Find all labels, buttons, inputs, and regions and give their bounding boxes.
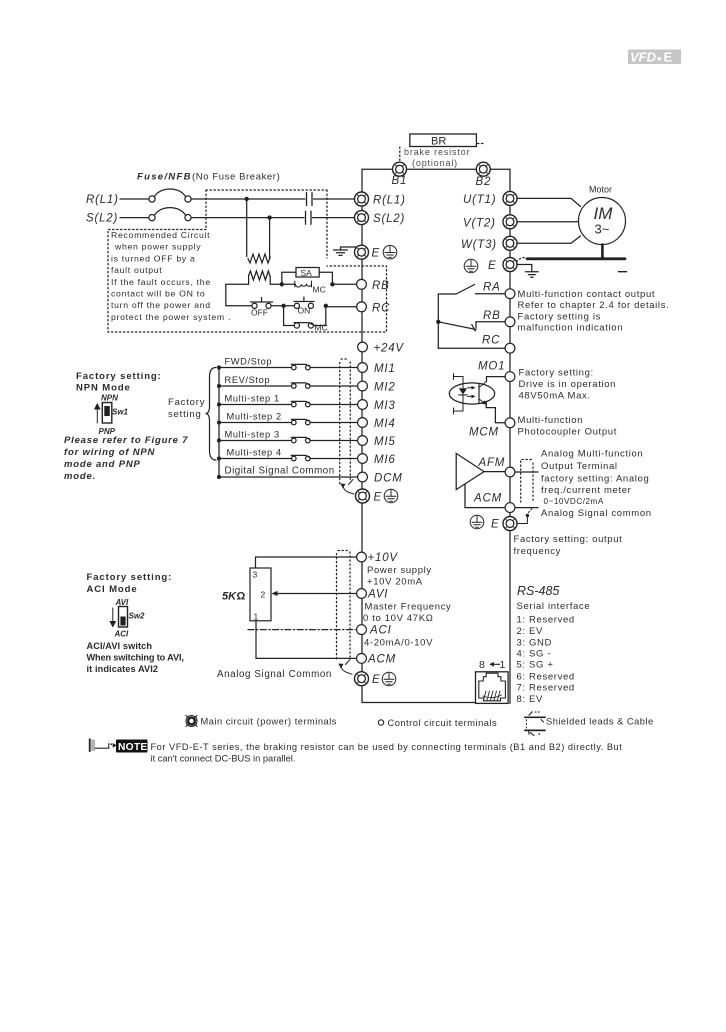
legend control circuit terminal icon xyxy=(378,720,383,725)
svg-text:When switching to AVI,: When switching to AVI, xyxy=(87,653,184,663)
dotted box recommended circuit xyxy=(108,230,387,333)
svg-text:setting: setting xyxy=(168,409,202,420)
terminal +24V xyxy=(358,342,368,352)
svg-text:AVI: AVI xyxy=(115,598,130,607)
svg-text:Drive is in operation: Drive is in operation xyxy=(519,379,617,390)
svg-text:6: Reserved: 6: Reserved xyxy=(517,672,575,683)
wire U to motor xyxy=(516,198,581,206)
svg-text:mode and PNP: mode and PNP xyxy=(64,459,141,470)
svg-text:turn off the power and: turn off the power and xyxy=(111,300,211,310)
svg-text:3~: 3~ xyxy=(595,222,610,237)
amplifier AFM xyxy=(456,453,484,489)
terminal E analog right xyxy=(503,517,517,531)
svg-text:Power supply: Power supply xyxy=(367,565,432,576)
svg-text:NOTE: NOTE xyxy=(118,742,147,753)
svg-text:MO1: MO1 xyxy=(478,361,505,373)
svg-text:R(L1): R(L1) xyxy=(86,194,119,206)
svg-text:freq./current meter: freq./current meter xyxy=(541,485,632,496)
terminal +10V xyxy=(357,552,367,562)
svg-text:E: E xyxy=(374,492,382,504)
shield dotted lines analog xyxy=(337,552,351,661)
ground symbol circled right-E xyxy=(464,259,478,273)
svg-text:Factory setting:: Factory setting: xyxy=(87,572,173,583)
svg-text:8: 8 xyxy=(479,659,485,671)
wire MI5 row xyxy=(219,440,357,442)
terminal RB right xyxy=(505,317,515,327)
svg-text:brake resistor: brake resistor xyxy=(404,147,470,157)
thick ground bus motor xyxy=(601,245,604,259)
svg-text:1: 1 xyxy=(254,612,259,622)
terminal RC xyxy=(357,302,367,312)
svg-text:4-20mA/0-10V: 4-20mA/0-10V xyxy=(364,638,433,649)
svg-text:Multi-function contact output: Multi-function contact output xyxy=(518,289,656,300)
switch Sw1 icon xyxy=(95,404,100,423)
wire pot pin1 to ACM xyxy=(256,621,357,659)
svg-text:S(L2): S(L2) xyxy=(86,213,118,225)
terminal ACI xyxy=(357,625,367,635)
svg-text:Output Terminal: Output Terminal xyxy=(541,461,618,472)
earth symbol at E left xyxy=(334,247,357,255)
svg-text:V(T2): V(T2) xyxy=(463,218,496,230)
text analog multi-function output xyxy=(541,449,652,520)
svg-text:Refer to chapter 2.4 for detai: Refer to chapter 2.4 for details. xyxy=(518,300,670,311)
wire SA branch xyxy=(282,272,333,284)
svg-text:Analog Signal Common: Analog Signal Common xyxy=(217,669,332,680)
svg-text:Motor: Motor xyxy=(589,185,612,195)
text power supply xyxy=(367,565,432,588)
junction dot SA left xyxy=(280,282,284,286)
svg-text:ON: ON xyxy=(298,306,311,316)
wire MI1 row xyxy=(219,367,357,369)
svg-text:48V50mA Max.: 48V50mA Max. xyxy=(519,391,591,402)
terminal R(L1) xyxy=(355,192,369,206)
svg-text:Recommended Circuit: Recommended Circuit xyxy=(111,230,210,240)
wire R2 right to SA branch xyxy=(270,276,295,284)
terminal MI1 xyxy=(358,363,368,373)
svg-text:Serial interface: Serial interface xyxy=(517,601,591,612)
svg-text:MC: MC xyxy=(315,323,328,333)
svg-text:Sw2: Sw2 xyxy=(129,612,146,621)
text please refer figure 7 xyxy=(64,435,188,482)
svg-text:(optional): (optional) xyxy=(412,158,458,168)
dotted box EMI filter xyxy=(206,190,327,258)
svg-text:Analog Signal common: Analog Signal common xyxy=(541,508,652,519)
potentiometer 5K xyxy=(250,568,271,621)
wire to RC xyxy=(326,306,357,308)
svg-text:5K: 5K xyxy=(222,591,237,603)
svg-text:MI5: MI5 xyxy=(374,436,396,448)
logo VFD-E xyxy=(628,50,681,65)
svg-text:Multi-step 4: Multi-step 4 xyxy=(227,448,282,458)
terminal ACM left xyxy=(357,654,367,664)
coil MC xyxy=(295,281,312,287)
svg-text:ACI Mode: ACI Mode xyxy=(87,584,138,595)
svg-text:MI1: MI1 xyxy=(374,363,396,375)
text serial interface list xyxy=(517,601,591,705)
capacitor C2 on S line xyxy=(306,211,312,224)
svg-text:REV/Stop: REV/Stop xyxy=(225,375,271,385)
svg-text:Factory: Factory xyxy=(168,397,205,408)
svg-text:S(L2): S(L2) xyxy=(373,213,405,225)
terminal MCM xyxy=(505,418,515,428)
svg-text:malfunction indication: malfunction indication xyxy=(518,323,624,334)
svg-text:NPN Mode: NPN Mode xyxy=(76,383,131,394)
note box xyxy=(116,740,148,753)
terminal B2 xyxy=(476,162,490,176)
svg-text:Multi-step 1: Multi-step 1 xyxy=(225,394,280,404)
terminal MI5 xyxy=(358,436,368,446)
relay common rail xyxy=(437,294,439,348)
svg-text:NPN: NPN xyxy=(101,394,118,403)
text multi-function photocoupler xyxy=(518,415,618,438)
wire MI6 row xyxy=(219,458,357,460)
text multi-function contact output xyxy=(518,289,670,334)
svg-text:1: 1 xyxy=(500,659,506,671)
wire RA xyxy=(476,293,506,295)
svg-text:3: 3 xyxy=(253,570,258,580)
terminal AVI xyxy=(357,589,367,599)
wire R input xyxy=(120,198,149,200)
note pencil icon xyxy=(90,739,117,751)
svg-text:AVI: AVI xyxy=(367,589,388,601)
terminal B1 xyxy=(393,162,407,176)
svg-text:Fuse/NFB: Fuse/NFB xyxy=(137,172,192,183)
svg-text:1: Reserved: 1: Reserved xyxy=(517,615,575,626)
text master frequency xyxy=(363,602,451,625)
svg-text:Photocoupler Output: Photocoupler Output xyxy=(518,427,618,438)
dash-dot wire ACI xyxy=(248,629,355,631)
junction dot S xyxy=(267,215,271,219)
svg-text:RS-485: RS-485 xyxy=(517,584,559,598)
wire MO1 to opto xyxy=(487,377,506,382)
svg-text:MC: MC xyxy=(313,285,326,295)
svg-text:E: E xyxy=(372,674,380,686)
svg-text:2: 2 xyxy=(261,590,266,600)
svg-text:Analog Multi-function: Analog Multi-function xyxy=(541,449,643,460)
wire S input xyxy=(120,217,149,219)
svg-text:5: SG +: 5: SG + xyxy=(517,660,554,671)
terminal RA xyxy=(505,289,515,299)
ground symbol circled analog right xyxy=(470,515,484,529)
wire OFF to ON xyxy=(272,305,295,307)
wire amp to ACM xyxy=(465,484,538,508)
shield arrow to E digital xyxy=(349,480,354,485)
junction dot R xyxy=(245,197,249,201)
svg-text:MCM: MCM xyxy=(469,427,499,439)
motor circle IM xyxy=(579,198,626,245)
svg-text:0 to 10V 47KΩ: 0 to 10V 47KΩ xyxy=(363,613,433,624)
wire RC right xyxy=(438,347,505,349)
svg-text:E: E xyxy=(488,260,496,272)
svg-text:If the fault occurs, the: If the fault occurs, the xyxy=(111,277,211,287)
svg-text:ACI: ACI xyxy=(114,630,130,639)
svg-text:+10V 20mA: +10V 20mA xyxy=(367,577,423,588)
svg-text:Ω: Ω xyxy=(237,591,246,603)
dotted link BR to B2 xyxy=(478,143,485,145)
wire R2 left to OFF branch xyxy=(226,276,252,306)
text ACI/AVI switch xyxy=(87,641,184,674)
resistor R2 zigzag xyxy=(249,271,271,280)
svg-text:RC: RC xyxy=(482,335,500,347)
terminal DCM xyxy=(358,472,368,482)
svg-text:Sw1: Sw1 xyxy=(112,408,129,417)
dotted link BR to B1 xyxy=(399,147,401,162)
terminal E digital xyxy=(356,489,370,503)
svg-text:8: EV: 8: EV xyxy=(517,694,544,705)
contact RB blade xyxy=(438,322,476,331)
wire RB right xyxy=(476,322,505,328)
fuse S xyxy=(149,215,155,221)
brace factory setting xyxy=(206,368,217,461)
wire W to motor xyxy=(516,236,581,243)
terminal V(T2) xyxy=(503,215,517,229)
wire R to terminal xyxy=(191,198,355,200)
svg-text:B2: B2 xyxy=(476,176,492,188)
svg-text:Control circuit terminals: Control circuit terminals xyxy=(388,718,498,728)
terminal E analog left xyxy=(355,672,369,686)
wire MI3 row xyxy=(219,404,357,406)
terminal E upper-left xyxy=(355,245,369,259)
terminal MI3 xyxy=(358,400,368,410)
terminal ACM right xyxy=(505,503,515,513)
legend main circuit terminal icon xyxy=(186,716,197,727)
switch MI5 xyxy=(292,438,297,443)
svg-text:2: EV: 2: EV xyxy=(517,626,544,637)
relay junction dot xyxy=(436,320,440,324)
wire S drop xyxy=(269,218,271,259)
text factory setting output frequency xyxy=(514,534,623,557)
shield dashed lines AFM xyxy=(521,461,533,502)
factory setting ACI text xyxy=(87,572,173,639)
svg-text:protect the power system .: protect the power system . xyxy=(111,312,231,322)
svg-text:factory setting: Analog: factory setting: Analog xyxy=(541,474,649,485)
contact RA blade xyxy=(438,285,474,295)
svg-text:E: E xyxy=(664,50,673,65)
right bus wire xyxy=(509,169,511,703)
svg-text:RB: RB xyxy=(483,310,501,322)
svg-text:ACM: ACM xyxy=(473,493,502,505)
left bus wire xyxy=(361,169,363,702)
svg-text:Factory setting:: Factory setting: xyxy=(519,367,594,378)
svg-text:Please refer to Figure 7: Please refer to Figure 7 xyxy=(64,435,188,446)
shield dotted lines digital xyxy=(340,362,351,484)
svg-text:OFF: OFF xyxy=(251,308,268,318)
svg-text:ACI/AVI switch: ACI/AVI switch xyxy=(87,641,153,651)
factory setting NPN text xyxy=(76,371,162,436)
wire V to motor xyxy=(516,221,579,223)
bottom bus wire xyxy=(362,702,475,704)
svg-text:when power supply: when power supply xyxy=(114,242,201,252)
wire AFM xyxy=(484,471,538,473)
wire MI2 row xyxy=(219,385,357,387)
brake resistor BR box xyxy=(410,134,477,147)
svg-text:E: E xyxy=(491,519,499,531)
svg-text:Factory setting:: Factory setting: xyxy=(76,371,162,382)
shield hook at E analog right xyxy=(517,517,527,524)
svg-text:for wiring of NPN: for wiring of NPN xyxy=(64,447,156,458)
shield arrow to E analog xyxy=(346,660,351,665)
wire pot pin3 to +10V xyxy=(256,557,357,568)
wire DCM row xyxy=(219,476,357,478)
svg-text:MI3: MI3 xyxy=(374,400,396,412)
wire AVI to pot pin2 xyxy=(273,593,357,595)
terminal S(L2) xyxy=(355,211,369,225)
svg-text:SA: SA xyxy=(301,268,313,278)
svg-text:it can't connect DC-BUS in par: it can't connect DC-BUS in parallel. xyxy=(151,754,296,764)
svg-text:RB: RB xyxy=(372,280,390,292)
svg-text:+10V: +10V xyxy=(368,552,399,564)
svg-text:3: GND: 3: GND xyxy=(517,638,553,649)
ground symbol circled upper-left xyxy=(383,245,397,259)
svg-text:RA: RA xyxy=(483,282,501,294)
legend shielded leads icon xyxy=(525,711,545,735)
svg-text:MI4: MI4 xyxy=(374,418,396,430)
svg-text:Factory setting is: Factory setting is xyxy=(518,311,602,322)
terminal W(T3) xyxy=(503,236,517,250)
terminal MI2 xyxy=(358,381,368,391)
svg-text:Digital Signal Common: Digital Signal Common xyxy=(225,466,335,477)
svg-text:For VFD-E-T series, the brakin: For VFD-E-T series, the braking resistor… xyxy=(151,742,623,752)
RJ45 jack xyxy=(476,672,509,704)
junction dot SA right xyxy=(330,282,334,286)
svg-text:7: Reserved: 7: Reserved xyxy=(517,683,575,694)
svg-text:ACM: ACM xyxy=(367,654,396,666)
resistor R1 zigzag xyxy=(248,254,270,263)
switch MI3 xyxy=(292,402,297,407)
svg-text:contact will be ON to: contact will be ON to xyxy=(111,289,205,299)
ground symbol circled analog left xyxy=(382,672,396,686)
svg-text:R(L1): R(L1) xyxy=(373,195,406,207)
SA box xyxy=(296,268,319,278)
svg-text:+24V: +24V xyxy=(374,343,405,355)
svg-text:IM: IM xyxy=(594,204,614,223)
svg-text:it indicates AVI2: it indicates AVI2 xyxy=(87,664,159,674)
switch MI2 xyxy=(292,384,297,389)
pushbutton ON xyxy=(294,303,299,308)
optocoupler U1 xyxy=(449,383,494,404)
terminal RB xyxy=(357,279,367,289)
switch MI6 xyxy=(292,456,297,461)
contact MC auxiliary xyxy=(284,306,326,326)
svg-text:0~10VDC/2mA: 0~10VDC/2mA xyxy=(544,497,604,506)
terminal E right xyxy=(503,258,517,272)
capacitor C1 on R line xyxy=(307,193,313,206)
svg-text:MI6: MI6 xyxy=(374,454,396,466)
wire MI4 row xyxy=(219,422,357,424)
svg-text:4: SG -: 4: SG - xyxy=(517,649,552,660)
svg-text:ACI: ACI xyxy=(369,625,392,637)
junction dot ON left xyxy=(281,304,285,308)
svg-text:mode.: mode. xyxy=(64,471,96,482)
svg-text:Multi-step 2: Multi-step 2 xyxy=(227,412,282,422)
svg-text:Main circuit (power) terminals: Main circuit (power) terminals xyxy=(201,717,337,727)
wire R drop xyxy=(246,199,248,257)
svg-text:Master Frequency: Master Frequency xyxy=(365,602,452,613)
pushbutton OFF xyxy=(252,303,257,308)
svg-text:B1: B1 xyxy=(392,175,408,187)
svg-text:BR: BR xyxy=(431,136,446,148)
svg-text:RC: RC xyxy=(372,303,390,315)
ground symbol circled digital xyxy=(384,489,398,503)
earth symbol at E right xyxy=(517,265,538,278)
digital input left rail xyxy=(218,368,220,478)
svg-text:fault output: fault output xyxy=(111,265,162,275)
svg-text:Multi-step 3: Multi-step 3 xyxy=(225,430,280,440)
svg-text:FWD/Stop: FWD/Stop xyxy=(225,357,273,367)
wire to RB xyxy=(332,283,356,285)
terminal MI6 xyxy=(358,454,368,464)
svg-text:is turned OFF by a: is turned OFF by a xyxy=(111,253,196,263)
svg-text:frequency: frequency xyxy=(514,546,562,557)
dotted arc shield at E right xyxy=(517,258,526,262)
svg-text:U(T1): U(T1) xyxy=(463,194,496,206)
terminal U(T1) xyxy=(503,191,517,205)
terminal MI4 xyxy=(358,418,368,428)
svg-text:(No Fuse Breaker): (No Fuse Breaker) xyxy=(192,172,280,183)
switch MI1 xyxy=(292,365,297,370)
svg-text:Factory setting: output: Factory setting: output xyxy=(514,534,623,545)
svg-text:AFM: AFM xyxy=(478,457,506,469)
terminal RC right xyxy=(505,343,515,353)
junction dot ON right xyxy=(324,304,328,308)
wire opto to MCM xyxy=(486,402,505,423)
note text xyxy=(151,742,623,764)
svg-text:Multi-function: Multi-function xyxy=(518,415,584,426)
svg-text:DCM: DCM xyxy=(374,473,403,485)
svg-text:Shielded leads & Cable: Shielded leads & Cable xyxy=(546,717,654,727)
terminal AFM xyxy=(505,467,515,477)
fuse R xyxy=(149,196,155,202)
wire S to terminal xyxy=(191,217,355,219)
svg-text:MI2: MI2 xyxy=(374,382,396,394)
text factory setting drive xyxy=(519,367,617,401)
svg-text:E: E xyxy=(372,248,380,260)
svg-text:W(T3): W(T3) xyxy=(461,239,497,251)
svg-text:VFD: VFD xyxy=(630,50,657,65)
switch MI4 xyxy=(292,420,297,425)
terminal MO1 xyxy=(505,372,515,382)
switch Sw2 icon xyxy=(110,608,115,627)
text recommended circuit xyxy=(111,230,231,322)
wire top bus B1-B2 xyxy=(362,168,510,170)
